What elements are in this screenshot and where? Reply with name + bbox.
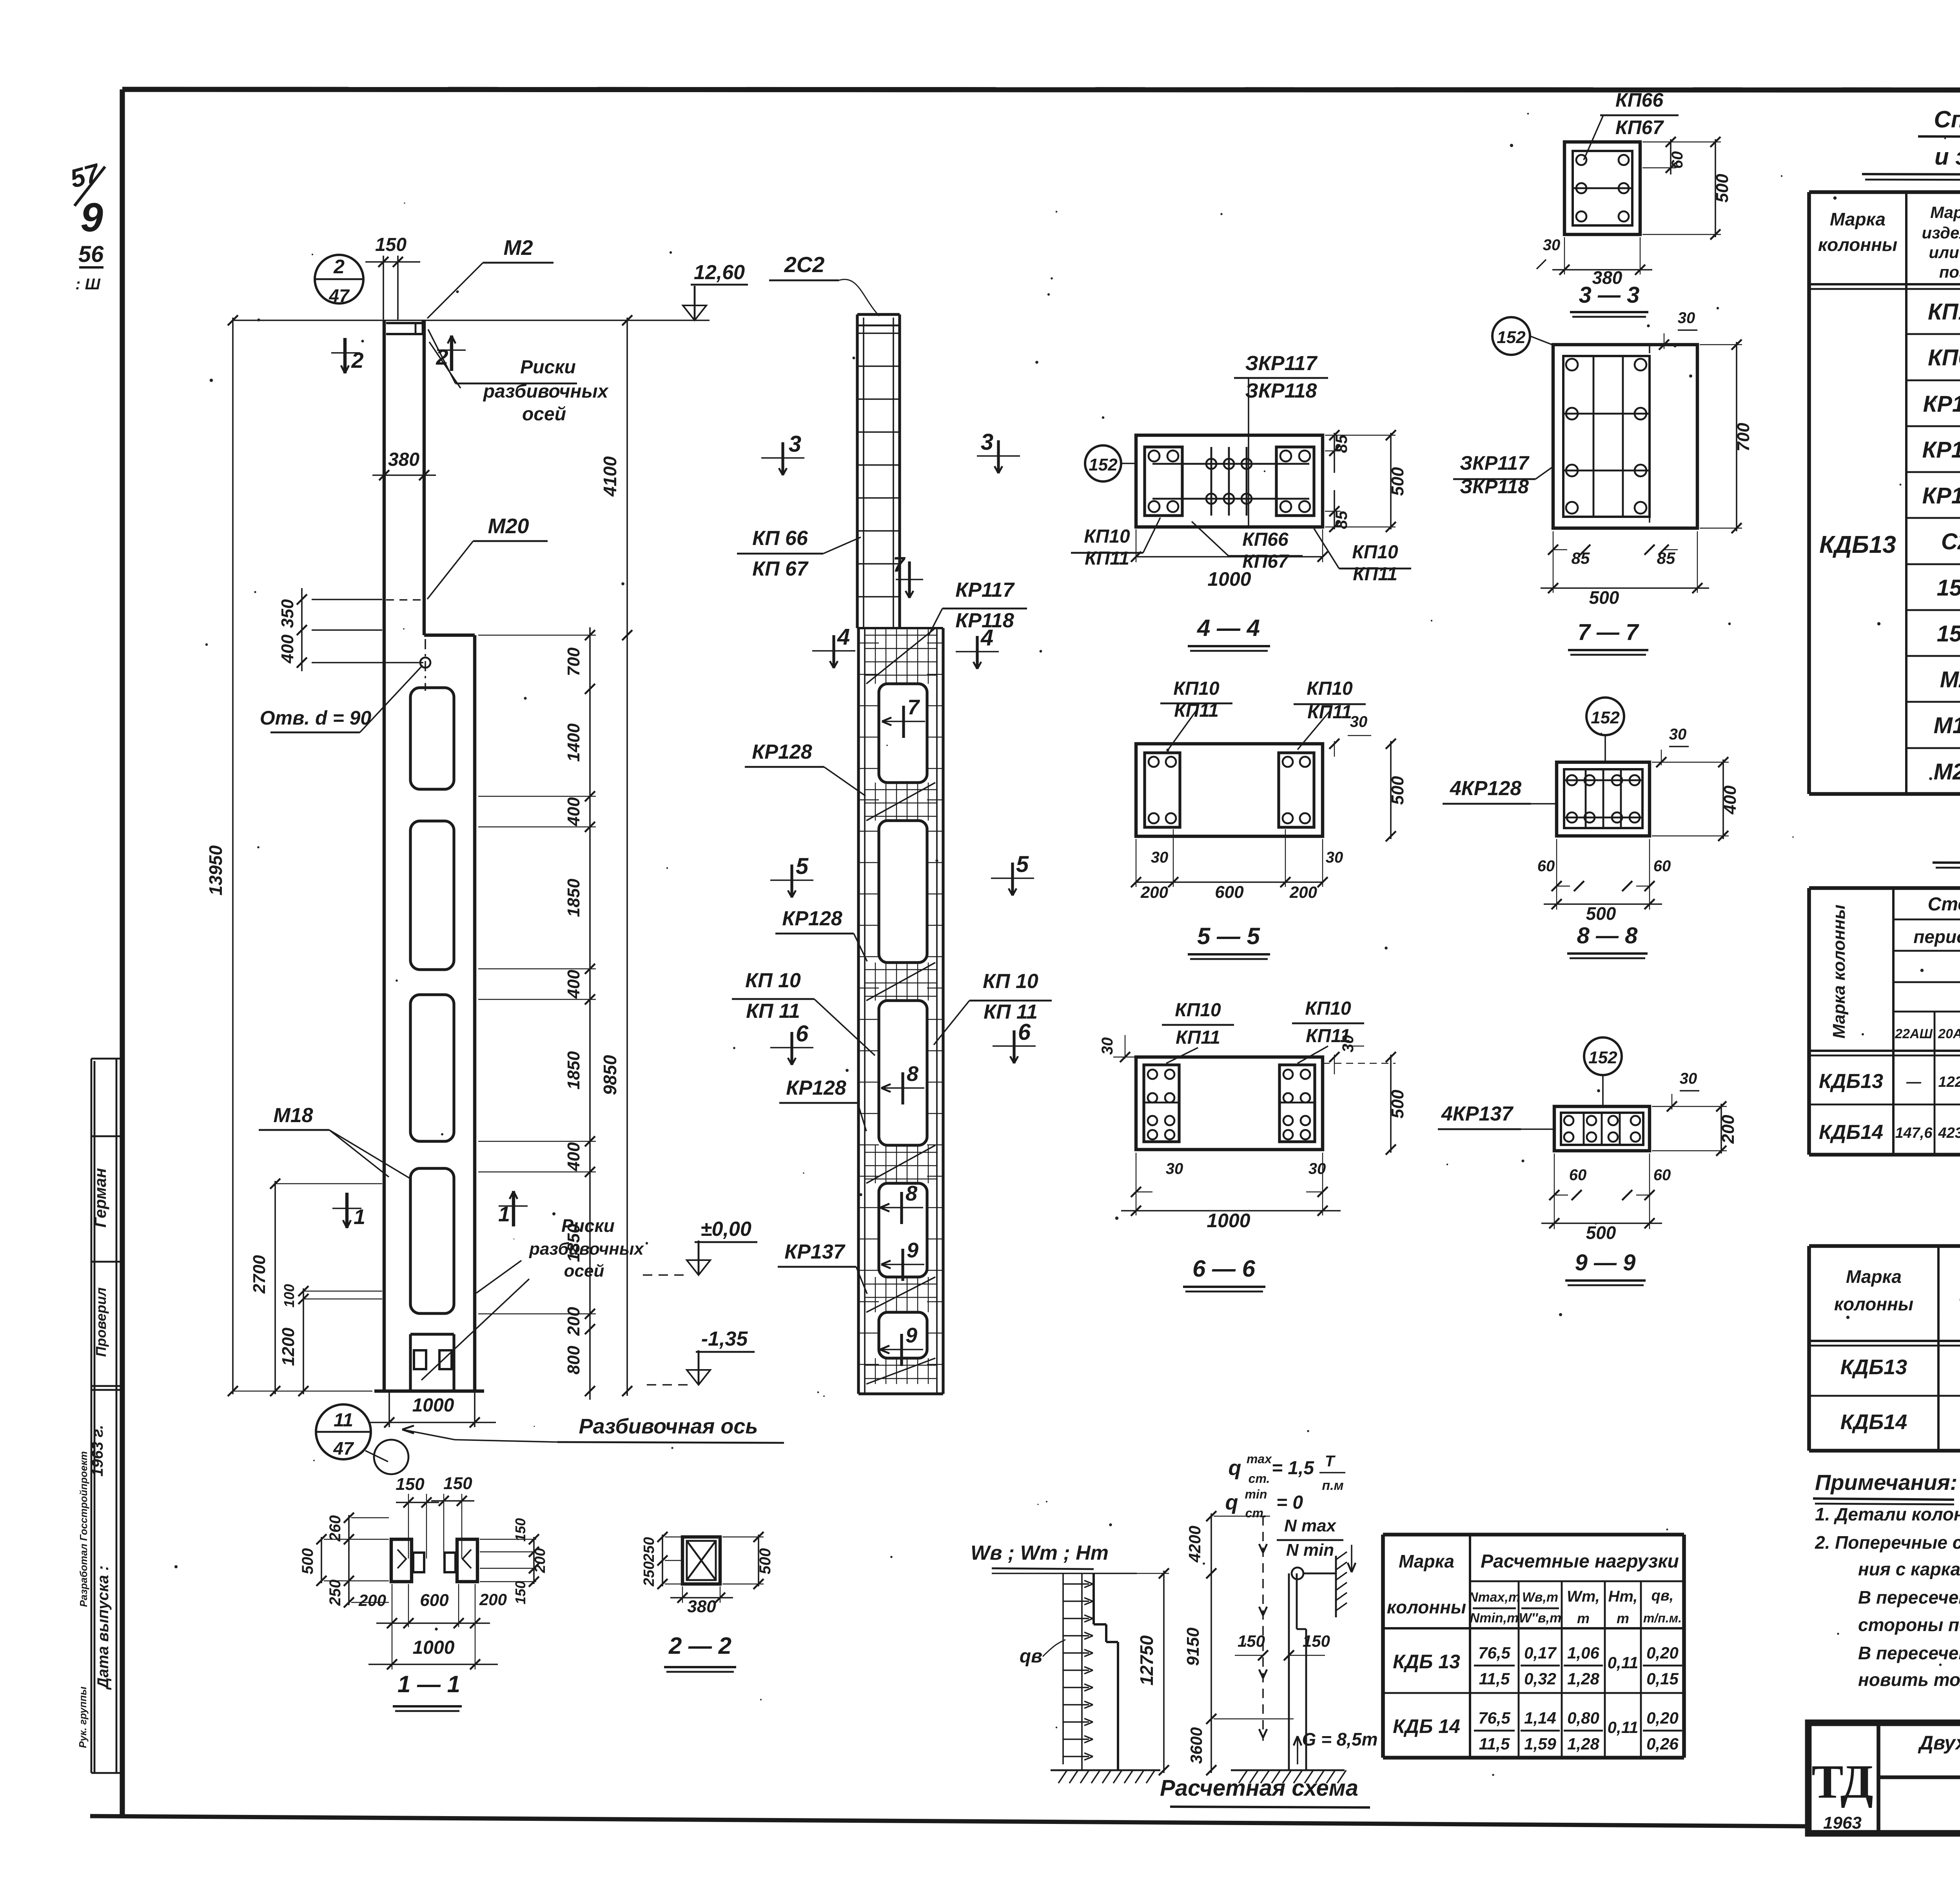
- svg-text:КР137: КР137: [784, 1241, 845, 1263]
- svg-text:Рук. группы: Рук. группы: [77, 1687, 89, 1748]
- svg-text:колонны: колонны: [1834, 1294, 1913, 1314]
- title block: [1808, 1723, 1960, 1833]
- dims of 3-3: [1537, 137, 1732, 288]
- svg-text:30: 30: [1669, 726, 1687, 743]
- svg-text:60: 60: [1653, 857, 1671, 875]
- svg-text:500: 500: [1388, 467, 1407, 496]
- svg-text:500: 500: [299, 1548, 316, 1575]
- svg-text:9150: 9150: [1183, 1628, 1203, 1666]
- scheme right dims: [1183, 1511, 1294, 1775]
- svg-text:152: 152: [1591, 708, 1620, 727]
- svg-text:150: 150: [375, 234, 407, 255]
- label 7-7: [1568, 619, 1648, 655]
- svg-text:3: 3: [981, 429, 993, 455]
- svg-text:9: 9: [906, 1324, 917, 1347]
- svg-text:КП 10: КП 10: [745, 969, 801, 992]
- svg-text:КП10: КП10: [1305, 998, 1351, 1019]
- svg-text:Стержневая арматура по ГОС: Стержневая арматура по ГОСТ 5781-61: [1928, 894, 1960, 915]
- svg-text:76,5: 76,5: [1478, 1709, 1510, 1727]
- svg-text:8: 8: [906, 1182, 917, 1205]
- svg-text:1200: 1200: [279, 1328, 298, 1366]
- label 3KR117 3KR118 for 7-7: [1453, 452, 1553, 498]
- svg-text:380: 380: [687, 1597, 716, 1616]
- svg-text:КР128: КР128: [786, 1077, 846, 1099]
- svg-text:30: 30: [1350, 713, 1368, 730]
- svg-text:150: 150: [512, 1518, 528, 1542]
- svg-text:1,28: 1,28: [1567, 1669, 1599, 1688]
- svg-text:qв: qв: [1020, 1646, 1042, 1667]
- section mark 3 right: [977, 429, 1020, 473]
- svg-text:30: 30: [1099, 1037, 1116, 1055]
- label KP66 KP67 for 3-3: [1584, 89, 1679, 160]
- labels above 6-6: [1162, 998, 1364, 1063]
- scheme pivot and wall: [1292, 1552, 1347, 1617]
- svg-text:350: 350: [278, 599, 297, 628]
- section mark 6 left: [770, 1021, 813, 1065]
- svg-text:13950: 13950: [205, 845, 226, 896]
- section 7-7: [1553, 345, 1697, 528]
- svg-text:700: 700: [564, 647, 583, 676]
- circle 152 for 8-8: [1586, 698, 1624, 762]
- svg-text:КП10: КП10: [1084, 526, 1130, 547]
- right dim chain 700-1850: [478, 627, 596, 1400]
- svg-text:150: 150: [512, 1581, 528, 1604]
- scheme ground left: [1051, 1770, 1160, 1783]
- section 4-4: [1136, 435, 1323, 527]
- hole otv d90: [420, 639, 430, 691]
- labels under 4-4: [1071, 518, 1411, 585]
- svg-text:60: 60: [1537, 857, 1555, 875]
- svg-text:2 — 2: 2 — 2: [668, 1633, 731, 1659]
- scheme ground right: [1231, 1770, 1346, 1783]
- svg-text:т: т: [1617, 1610, 1629, 1626]
- label 4KR128: [1443, 777, 1557, 804]
- svg-text:11,5: 11,5: [1479, 1735, 1510, 1753]
- circle 152 for 7-7: [1492, 317, 1553, 355]
- section mark 8 lower: [880, 1182, 923, 1224]
- svg-text:Wв,т: Wв,т: [1522, 1590, 1558, 1605]
- svg-text:Wв ; Wт ; Нт: Wв ; Wт ; Нт: [971, 1542, 1109, 1564]
- svg-text:56: 56: [78, 242, 104, 267]
- handwritten sheet number top-left: [67, 158, 105, 293]
- section mark 4 left: [812, 624, 855, 668]
- svg-text:400: 400: [1720, 785, 1740, 815]
- svg-text:0,17: 0,17: [1524, 1644, 1557, 1662]
- svg-text:-1,35: -1,35: [701, 1328, 748, 1350]
- svg-text:152: 152: [1937, 575, 1960, 601]
- label 2C2: [769, 252, 879, 316]
- label KR117 KR118: [928, 579, 1027, 636]
- svg-text:колонны: колонны: [1387, 1597, 1466, 1617]
- dim 12750: [1121, 1568, 1169, 1775]
- svg-text:6 — 6: 6 — 6: [1192, 1255, 1256, 1282]
- dims of 2-2: [641, 1532, 774, 1616]
- svg-text:30: 30: [1680, 1070, 1697, 1087]
- label riski top: [428, 329, 609, 425]
- section 1-1 branches: [391, 1539, 477, 1582]
- svg-text:—: —: [1906, 1074, 1922, 1090]
- svg-text:N min: N min: [1286, 1540, 1334, 1560]
- svg-text:Отв. d = 90: Отв. d = 90: [260, 707, 372, 729]
- svg-text:200: 200: [479, 1590, 507, 1609]
- dims of 7-7: [1541, 309, 1753, 608]
- svg-text:4: 4: [837, 624, 850, 650]
- title specification: [1862, 106, 1960, 181]
- svg-text:КП67: КП67: [1615, 116, 1664, 138]
- svg-text:Nmin,т: Nmin,т: [1470, 1611, 1519, 1626]
- svg-text:9 — 9: 9 — 9: [1575, 1250, 1636, 1275]
- svg-text:47: 47: [328, 285, 350, 306]
- svg-text:150: 150: [1238, 1632, 1265, 1650]
- svg-text:4100: 4100: [600, 456, 620, 497]
- svg-text:периодического профиля: периодического профиля: [1913, 926, 1960, 947]
- labels above 5-5: [1160, 678, 1366, 750]
- svg-text:154: 154: [1937, 621, 1960, 647]
- svg-text:КП 11: КП 11: [746, 1000, 800, 1023]
- svg-text:500: 500: [1589, 587, 1619, 608]
- svg-text:ТД: ТД: [1811, 1755, 1873, 1808]
- label KR137 mid: [778, 1241, 867, 1294]
- svg-text:76,5: 76,5: [1478, 1644, 1510, 1662]
- label KR128 a: [745, 741, 866, 796]
- section mark 9 upper: [881, 1239, 924, 1281]
- svg-text:60: 60: [1653, 1166, 1671, 1184]
- svg-text:КР128: КР128: [782, 907, 842, 930]
- svg-text:М18: М18: [273, 1104, 313, 1127]
- svg-text:Марка: Марка: [1399, 1551, 1454, 1571]
- svg-text:КП11: КП11: [1176, 1027, 1220, 1048]
- middle column lower wide part: [858, 628, 943, 1394]
- svg-text:1850: 1850: [564, 1051, 583, 1090]
- scheme right load labels: [1225, 1452, 1346, 1520]
- svg-text:30: 30: [1543, 236, 1561, 254]
- design loads table: [1383, 1535, 1684, 1758]
- svg-text:1,14: 1,14: [1524, 1709, 1556, 1727]
- svg-text:100: 100: [281, 1284, 297, 1308]
- dims of 1-1 top: [396, 1474, 474, 1559]
- svg-text:4 — 4: 4 — 4: [1197, 615, 1260, 641]
- section 9-9: [1554, 1106, 1650, 1151]
- svg-text:разбивочных: разбивочных: [529, 1239, 644, 1259]
- svg-text:2С2: 2С2: [784, 252, 825, 277]
- svg-text:КП10: КП10: [1928, 299, 1960, 325]
- svg-text:КР128: КР128: [752, 741, 812, 763]
- scheme 150 dims: [1235, 1632, 1330, 1660]
- svg-text:КП 66: КП 66: [752, 527, 808, 550]
- section mark 2 right: [436, 336, 466, 371]
- svg-text:М20: М20: [1934, 759, 1960, 785]
- dims of 9-9: [1541, 1070, 1738, 1243]
- svg-text:200: 200: [564, 1307, 583, 1336]
- svg-text:КДБ13: КДБ13: [1840, 1355, 1907, 1379]
- label KR128 b: [775, 907, 867, 961]
- svg-text:W″в,т: W″в,т: [1519, 1611, 1562, 1626]
- svg-text:ЗКР117: ЗКР117: [1245, 352, 1318, 375]
- svg-text:КР137: КР137: [1922, 483, 1960, 509]
- svg-text:400: 400: [564, 797, 583, 826]
- svg-text:1000: 1000: [1207, 1210, 1250, 1232]
- section mark 6 right: [993, 1019, 1036, 1063]
- svg-text:9850: 9850: [600, 1055, 620, 1095]
- svg-text:Дата выпуска :: Дата выпуска :: [94, 1566, 112, 1690]
- label riski bottom: [421, 1215, 644, 1380]
- svg-text:0,11: 0,11: [1608, 1653, 1639, 1672]
- label M18: [259, 1104, 412, 1179]
- svg-text:0,80: 0,80: [1567, 1709, 1599, 1727]
- svg-text:Марка: Марка: [1830, 209, 1886, 229]
- svg-text:1400: 1400: [564, 723, 583, 762]
- dims 350 400 left: [278, 588, 423, 671]
- section 2-2: [682, 1537, 720, 1584]
- svg-text:М2: М2: [503, 236, 533, 260]
- dims of 8-8: [1537, 726, 1740, 924]
- svg-text:85: 85: [1332, 510, 1350, 529]
- label KR137 for 9-9: [1438, 1103, 1554, 1129]
- svg-text:0,15: 0,15: [1646, 1669, 1679, 1688]
- svg-text:600: 600: [1215, 883, 1244, 902]
- svg-text:6: 6: [796, 1021, 809, 1046]
- section 3-3: [1564, 142, 1640, 234]
- section mark 5 left: [770, 854, 813, 897]
- label raschetnaya schema: [1160, 1775, 1370, 1807]
- label M20: [386, 514, 548, 600]
- svg-text:N max: N max: [1284, 1516, 1337, 1535]
- svg-text:ЗКР118: ЗКР118: [1245, 380, 1317, 402]
- section mark 2 left: [331, 338, 364, 373]
- svg-text:КП10: КП10: [1352, 542, 1398, 563]
- svg-text:±0,00: ±0,00: [701, 1218, 751, 1241]
- left column elevation outline: [374, 320, 484, 1391]
- section mark 3 left: [761, 431, 804, 475]
- svg-text:: Ш: : Ш: [75, 276, 100, 293]
- svg-text:5: 5: [796, 854, 809, 879]
- svg-text:КП10: КП10: [1307, 678, 1353, 699]
- svg-text:КП11: КП11: [1353, 564, 1397, 585]
- svg-text:Марка: Марка: [1846, 1266, 1902, 1287]
- svg-text:30: 30: [1166, 1160, 1183, 1177]
- svg-text:max: max: [1247, 1452, 1272, 1466]
- dims of 1-1 left: [299, 1513, 389, 1608]
- svg-text:изделия: изделия: [1922, 223, 1960, 242]
- svg-text:380: 380: [388, 449, 419, 470]
- scheme distributed load arrows: [1063, 1573, 1093, 1764]
- svg-text:500: 500: [1388, 1090, 1407, 1119]
- svg-text:ст.: ст.: [1249, 1471, 1270, 1486]
- svg-text:500: 500: [1388, 776, 1407, 805]
- svg-text:1850: 1850: [564, 879, 583, 917]
- svg-text:12,60: 12,60: [694, 261, 745, 284]
- svg-text:т/п.м.: т/п.м.: [1643, 1611, 1682, 1625]
- svg-text:60: 60: [1669, 151, 1686, 169]
- svg-text:колонны: колонны: [1818, 234, 1897, 255]
- svg-text:Примечания:: Примечания:: [1815, 1470, 1957, 1495]
- svg-text:600: 600: [420, 1591, 449, 1610]
- svg-text:2: 2: [333, 256, 345, 278]
- section 8-8: [1557, 762, 1650, 836]
- svg-text:150: 150: [443, 1474, 472, 1493]
- section mark 7 top: [893, 553, 923, 598]
- svg-text:новить только взамен: новить только взамен вырезанных стержней…: [1858, 1669, 1960, 1690]
- svg-text:250: 250: [327, 1580, 344, 1606]
- svg-text:8: 8: [907, 1062, 918, 1086]
- svg-text:КДБ14: КДБ14: [1840, 1410, 1907, 1434]
- dims of 4-4: [1131, 430, 1407, 590]
- notes primechaniya: [1813, 1470, 1960, 1690]
- svg-text:200: 200: [358, 1591, 386, 1609]
- svg-text:Марка: Марка: [1930, 203, 1960, 222]
- svg-text:400: 400: [564, 970, 583, 999]
- dims of 6-6: [1099, 1035, 1407, 1232]
- svg-text:КП10: КП10: [1173, 678, 1220, 699]
- svg-text:Двухветвевые колонны одноэт: Двухветвевые колонны одноэтажных бескран…: [1918, 1732, 1960, 1754]
- svg-text:2. Поперечные стержни кар: 2. Поперечные стержни каркасов ветвей вы…: [1815, 1532, 1960, 1553]
- svg-text:КР128: КР128: [1922, 437, 1960, 463]
- svg-text:2700: 2700: [250, 1255, 269, 1294]
- section mark 4 right: [956, 625, 999, 669]
- title vyborka stali: [1933, 832, 1960, 869]
- svg-text:122,0: 122,0: [1938, 1074, 1960, 1090]
- level mark 0.00: [643, 1218, 757, 1275]
- svg-text:60: 60: [1569, 1166, 1587, 1184]
- svg-text:7 — 7: 7 — 7: [1578, 619, 1639, 645]
- svg-text:150: 150: [396, 1475, 425, 1494]
- label KR128 c: [779, 1077, 866, 1131]
- svg-text:4КР137: 4КР137: [1441, 1103, 1514, 1125]
- svg-text:КП66: КП66: [1242, 529, 1289, 550]
- circle axis 2/47: [315, 255, 363, 306]
- svg-text:Проверил: Проверил: [93, 1287, 109, 1357]
- circle axis 11/47: [316, 1404, 388, 1462]
- svg-text:1000: 1000: [412, 1395, 454, 1416]
- svg-text:КДБ 14: КДБ 14: [1393, 1715, 1460, 1737]
- svg-text:КДБ 13: КДБ 13: [1393, 1651, 1460, 1673]
- middle column upper shaft: [857, 314, 900, 628]
- svg-text:700: 700: [1734, 423, 1753, 452]
- svg-text:ЗКР117: ЗКР117: [1460, 452, 1530, 474]
- label qv: [1020, 1640, 1065, 1667]
- svg-text:800: 800: [564, 1346, 583, 1375]
- svg-text:250: 250: [641, 1561, 657, 1586]
- middle column lattice bands: [858, 628, 943, 1384]
- svg-text:2: 2: [351, 348, 363, 372]
- section 6-6: [1136, 1057, 1323, 1150]
- svg-text:= 0: = 0: [1276, 1492, 1303, 1513]
- circle 152 for 4-4: [1085, 445, 1136, 481]
- svg-text:1000: 1000: [413, 1637, 455, 1658]
- svg-text:9: 9: [907, 1239, 918, 1262]
- svg-text:250: 250: [641, 1537, 657, 1562]
- section mark 1 left: [332, 1193, 365, 1229]
- svg-text:0,26: 0,26: [1646, 1735, 1679, 1753]
- svg-text:КП10: КП10: [1175, 1000, 1221, 1021]
- svg-text:9: 9: [80, 195, 103, 240]
- dim 150 top: [365, 234, 420, 320]
- svg-text:500: 500: [1713, 174, 1732, 203]
- svg-text:500: 500: [757, 1548, 774, 1575]
- svg-text:М18: М18: [1934, 713, 1960, 738]
- dims 100 1200 left: [279, 1284, 382, 1396]
- small circle: [374, 1440, 408, 1474]
- svg-text:0,32: 0,32: [1524, 1669, 1556, 1688]
- svg-text:Разработал Госстройпроект: Разработал Госстройпроект: [78, 1451, 89, 1607]
- label 2-2: [664, 1633, 736, 1672]
- svg-text:7: 7: [907, 696, 920, 719]
- svg-text:Нт,: Нт,: [1608, 1588, 1637, 1605]
- svg-text:147,6: 147,6: [1895, 1125, 1933, 1141]
- svg-text:Wт,: Wт,: [1567, 1588, 1600, 1605]
- svg-text:30: 30: [1151, 849, 1169, 866]
- svg-text:КП11: КП11: [1085, 548, 1129, 569]
- svg-text:1 — 1: 1 — 1: [397, 1671, 460, 1697]
- steel selection table: [1809, 888, 1960, 1155]
- svg-text:1,28: 1,28: [1567, 1735, 1599, 1753]
- svg-text:С2: С2: [1941, 529, 1960, 554]
- svg-text:20АШ: 20АШ: [1938, 1026, 1960, 1041]
- svg-text:3 — 3: 3 — 3: [1579, 282, 1640, 308]
- svg-text:400: 400: [278, 634, 297, 664]
- svg-text:КП 10: КП 10: [983, 970, 1038, 993]
- svg-text:п.м: п.м: [1322, 1478, 1343, 1493]
- svg-text:Расчетные нагрузки: Расчетные нагрузки: [1481, 1551, 1679, 1572]
- section mark 5 right: [991, 852, 1034, 896]
- label razbivochnaya os: [402, 1415, 784, 1443]
- dim 2700 left: [250, 1179, 382, 1396]
- indicators table: [1809, 1246, 1960, 1451]
- label 8-8: [1567, 923, 1648, 958]
- svg-text:В пересечениях ветвей с р: В пересечениях ветвей с рядовыми перемыч…: [1858, 1587, 1960, 1608]
- svg-text:КДБ14: КДБ14: [1819, 1121, 1883, 1144]
- svg-text:260: 260: [327, 1515, 344, 1542]
- scan noise specks: [174, 113, 1960, 1776]
- dims of 5-5: [1131, 713, 1407, 902]
- svg-text:4: 4: [980, 625, 993, 650]
- section mark 7 inside opening: [882, 696, 925, 738]
- svg-text:q: q: [1229, 1456, 1241, 1480]
- scheme left load text: [971, 1542, 1109, 1569]
- svg-text:КР117: КР117: [1923, 391, 1960, 417]
- svg-text:47: 47: [333, 1438, 354, 1459]
- label KP10 KP11 left: [732, 969, 875, 1055]
- circle 152 for 9-9: [1584, 1037, 1622, 1106]
- svg-text:1963: 1963: [1823, 1813, 1862, 1833]
- svg-text:4200: 4200: [1185, 1526, 1204, 1562]
- section 5-5: [1136, 744, 1323, 836]
- svg-text:150: 150: [1303, 1632, 1330, 1650]
- svg-text:500: 500: [1586, 1222, 1616, 1243]
- level mark -1,35: [647, 1328, 755, 1385]
- left margin signature strip: [77, 1059, 122, 1773]
- label otv d=90: [260, 665, 423, 732]
- level mark 12,60: [683, 261, 748, 320]
- svg-text:КП66: КП66: [1615, 89, 1664, 111]
- svg-text:85: 85: [1657, 549, 1675, 567]
- svg-text:Риски: Риски: [520, 357, 576, 378]
- svg-text:8 — 8: 8 — 8: [1577, 923, 1638, 948]
- svg-text:КП66: КП66: [1928, 345, 1960, 371]
- svg-text:85: 85: [1332, 434, 1350, 453]
- dim 4100 and 9850: [600, 315, 632, 1396]
- svg-text:7: 7: [893, 553, 906, 576]
- svg-text:КП 67: КП 67: [752, 558, 809, 580]
- svg-text:Спецификация марок арматур: Спецификация марок арматурных изделий: [1934, 106, 1960, 133]
- label 5-5: [1188, 923, 1270, 959]
- label G 8,5: [1294, 1729, 1378, 1764]
- svg-text:30: 30: [1339, 1035, 1357, 1053]
- svg-text:М2: М2: [1940, 667, 1960, 692]
- svg-text:стороны по три дополнител: стороны по три дополнительные шпильки . …: [1858, 1615, 1960, 1635]
- scheme right column: [1259, 1516, 1306, 1770]
- dims of 1-1 right: [480, 1518, 548, 1604]
